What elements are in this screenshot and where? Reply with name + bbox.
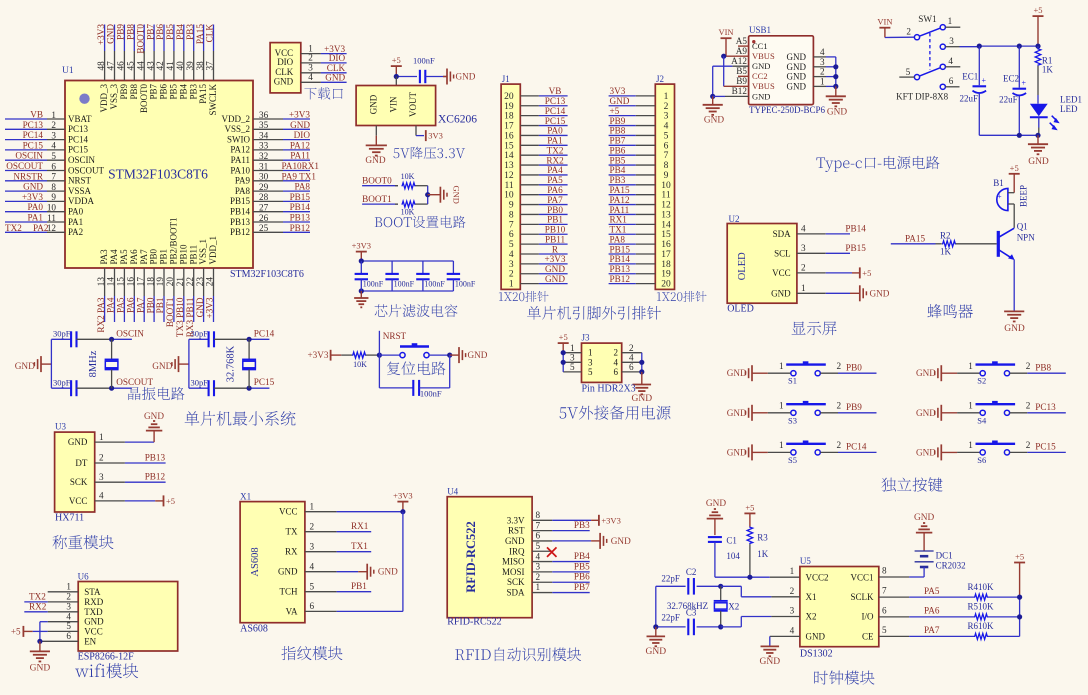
svg-text:6: 6 (949, 76, 954, 86)
svg-text:1: 1 (968, 401, 973, 411)
svg-text:AS608: AS608 (250, 547, 261, 576)
svg-text:S4: S4 (977, 415, 987, 425)
svg-text:PA12: PA12 (290, 140, 310, 150)
switch SW1 pin6 contact + stub (940, 84, 945, 89)
svg-text:DC1: DC1 (936, 550, 953, 560)
svg-text:GND: GND (23, 182, 43, 192)
svg-text:PB5: PB5 (574, 561, 590, 571)
U1.46 (116, 24, 129, 100)
svg-text:2: 2 (536, 572, 541, 582)
svg-text:19: 19 (661, 270, 671, 280)
svg-text:A12: A12 (731, 56, 747, 66)
svg-text:PA15: PA15 (905, 233, 925, 243)
net label PB13 wire (125, 462, 166, 464)
wire C2-C3 left rail (655, 586, 657, 627)
U2.3 (774, 243, 826, 258)
svg-text:22uF: 22uF (999, 95, 1018, 105)
USB1 GND A12 stub + wire (732, 65, 748, 67)
svg-text:GND: GND (827, 108, 847, 118)
svg-text:15: 15 (504, 141, 514, 151)
J1.16 (504, 126, 568, 142)
svg-text:8: 8 (664, 161, 669, 171)
svg-text:12: 12 (661, 201, 671, 211)
svg-text:PB4: PB4 (175, 24, 185, 40)
svg-text:PC13: PC13 (545, 96, 566, 106)
J1.5 (509, 234, 568, 250)
filter caps top rail (361, 260, 453, 262)
switch dashed link (929, 33, 931, 70)
svg-text:2: 2 (99, 453, 104, 463)
svg-text:PB6: PB6 (610, 145, 626, 155)
svg-text:PA15: PA15 (610, 185, 630, 195)
svg-text:AS608: AS608 (240, 624, 268, 635)
caption 显示屏 (792, 321, 837, 335)
svg-text:VCC: VCC (772, 268, 791, 278)
wire pin7 + net label PA5 (879, 596, 909, 598)
power +5 port (R3) (744, 512, 755, 514)
net label RX1 wire (X1) (337, 531, 372, 533)
svg-text:X2: X2 (728, 601, 739, 611)
J1.3 (509, 254, 568, 270)
svg-text:RST: RST (508, 526, 525, 536)
svg-text:BEEP: BEEP (1019, 185, 1029, 207)
svg-text:4: 4 (664, 122, 669, 132)
svg-text:PB1: PB1 (351, 581, 367, 591)
wire OSCOUT row (Y2) (214, 387, 249, 389)
caption 单片机引脚外引排针 (527, 306, 661, 320)
svg-text:GND: GND (1028, 157, 1049, 167)
svg-text:3: 3 (949, 36, 954, 46)
wire GND vertical to B12 + node (712, 66, 714, 96)
svg-text:TCH: TCH (280, 587, 299, 597)
svg-text:SDA: SDA (773, 229, 792, 239)
ground GND (earth) power rail (1037, 135, 1039, 143)
resistor R3 1K (747, 526, 753, 544)
DL.2 (277, 53, 346, 67)
svg-text:B9: B9 (736, 76, 747, 86)
svg-text:X2: X2 (806, 612, 817, 622)
svg-text:PB8: PB8 (129, 84, 139, 100)
svg-text:PC14: PC14 (254, 329, 275, 339)
svg-text:43: 43 (145, 61, 155, 71)
svg-text:2: 2 (1026, 361, 1031, 371)
svg-text:PB14: PB14 (610, 254, 631, 264)
svg-text:U4: U4 (447, 487, 458, 497)
svg-text:1: 1 (536, 582, 541, 592)
svg-text:OSCIN: OSCIN (116, 329, 144, 339)
svg-text:2: 2 (837, 361, 842, 371)
svg-text:PA15: PA15 (198, 84, 208, 104)
svg-text:GND: GND (152, 362, 172, 372)
display U2 OLED body (727, 224, 797, 304)
svg-text:GND: GND (468, 350, 488, 360)
svg-text:32: 32 (259, 151, 269, 161)
caption 蜂鸣器 (927, 304, 973, 318)
svg-text:+5: +5 (610, 106, 620, 116)
svg-text:PA1: PA1 (68, 217, 83, 227)
svg-text:DIO: DIO (329, 53, 346, 63)
svg-text:17: 17 (504, 122, 514, 132)
U1.26 (230, 213, 310, 227)
svg-text:PC14: PC14 (846, 442, 867, 452)
U2.2 (772, 263, 826, 278)
svg-text:VDD_2: VDD_2 (222, 114, 251, 124)
svg-text:10K: 10K (401, 208, 415, 217)
svg-text:BOOT0: BOOT0 (362, 175, 392, 185)
svg-text:+: + (1021, 79, 1026, 88)
svg-text:19: 19 (155, 277, 165, 287)
svg-text:PB13: PB13 (145, 452, 166, 462)
svg-text:3: 3 (820, 57, 825, 67)
U1.11 (5, 213, 83, 227)
connector P? download port body (270, 43, 301, 93)
svg-text:PA12: PA12 (230, 145, 250, 155)
svg-text:LED1: LED1 (1060, 95, 1082, 105)
caption 5V外接备用电源 (560, 406, 671, 420)
connector J3 HDR2X3 body (582, 343, 622, 382)
svg-text:22: 22 (185, 277, 195, 287)
wire S1 right + net label PB0 (820, 372, 838, 374)
wire cap to right leg (419, 387, 450, 389)
svg-text:PA7: PA7 (135, 297, 145, 313)
U6.3 (66, 602, 103, 617)
svg-text:GND: GND (632, 394, 653, 404)
U6 VCC pin wire (33, 630, 48, 632)
svg-text:13: 13 (504, 161, 514, 171)
wire S1 left (768, 372, 791, 374)
svg-text:LED: LED (1060, 104, 1078, 114)
svg-text:PB3: PB3 (610, 175, 626, 185)
net label PB5 wire (U4) (552, 571, 589, 573)
svg-text:VSS_3: VSS_3 (109, 84, 119, 110)
svg-text:30pF: 30pF (191, 377, 209, 387)
svg-text:6: 6 (51, 161, 56, 171)
J2.15 (609, 225, 671, 241)
resistor 10K (BOOT1) (402, 201, 416, 207)
svg-text:VBAT: VBAT (68, 114, 92, 124)
U1.15 (116, 249, 129, 322)
U1.16 (126, 249, 139, 322)
svg-text:5: 5 (51, 151, 56, 161)
svg-text:11: 11 (47, 213, 56, 223)
svg-text:20: 20 (504, 92, 514, 102)
svg-text:PA15: PA15 (195, 24, 205, 44)
capacitor 100nF (reset) (412, 380, 414, 396)
svg-text:PB13: PB13 (290, 213, 311, 223)
svg-text:SDA: SDA (506, 588, 525, 598)
svg-text:GND: GND (452, 185, 462, 203)
U1.2 (5, 120, 89, 134)
power VIN port (USB) (721, 37, 732, 39)
svg-text:HX711: HX711 (55, 513, 84, 524)
svg-text:GND: GND (727, 368, 747, 378)
svg-text:46: 46 (116, 61, 126, 71)
caption RFID自动识别模块 (455, 648, 581, 662)
svg-text:26: 26 (259, 213, 269, 223)
U4.3 (502, 562, 552, 577)
wire S2 right + net label PB8 (1010, 372, 1028, 374)
J1.18 (504, 106, 568, 122)
svg-text:MOSI: MOSI (502, 567, 525, 577)
svg-text:PB6: PB6 (574, 572, 590, 582)
crystal X2 body (720, 586, 722, 601)
svg-text:PA6: PA6 (129, 249, 139, 265)
svg-text:29: 29 (259, 182, 269, 192)
power +3V3 port (X1) (397, 501, 408, 503)
svg-text:U6: U6 (78, 572, 89, 582)
svg-text:GND: GND (144, 411, 164, 421)
svg-text:TX3 PB10: TX3 PB10 (175, 297, 185, 337)
svg-text:6: 6 (509, 230, 514, 240)
wire to 10K (341, 354, 352, 356)
svg-text:10: 10 (661, 181, 671, 191)
svg-text:PC13: PC13 (68, 124, 89, 134)
U1.24 (205, 236, 218, 322)
svg-text:PB1: PB1 (159, 249, 169, 265)
U1.28 (230, 192, 310, 206)
capacitor 30pF top (Y1) (51, 338, 71, 340)
J3.5 (563, 362, 593, 377)
J2.10 (609, 175, 671, 191)
svg-text:5: 5 (509, 240, 514, 250)
svg-text:15: 15 (661, 230, 671, 240)
svg-text:1: 1 (779, 361, 784, 371)
svg-text:PB15: PB15 (845, 243, 866, 253)
svg-text:38: 38 (195, 61, 205, 71)
svg-text:1: 1 (51, 110, 56, 120)
wire S3 left (768, 412, 791, 414)
svg-text:PB0: PB0 (145, 297, 155, 313)
svg-text:1: 1 (801, 283, 806, 293)
J2.9 (609, 165, 669, 181)
svg-text:GND: GND (787, 72, 807, 82)
svg-text:R610K: R610K (968, 621, 995, 631)
svg-text:1: 1 (588, 348, 593, 358)
svg-text:TX2: TX2 (29, 591, 46, 601)
svg-text:VA: VA (286, 606, 298, 616)
svg-text:STM32F103C8T6: STM32F103C8T6 (108, 167, 208, 182)
U1.13 (96, 249, 109, 333)
J3.4 (614, 353, 642, 368)
svg-text:PB4: PB4 (610, 165, 626, 175)
svg-text:R3: R3 (757, 533, 768, 543)
svg-text:GND: GND (916, 368, 936, 378)
X1.1 (279, 501, 337, 516)
svg-text:DS1302: DS1302 (800, 649, 833, 660)
svg-text:4: 4 (948, 56, 953, 66)
net label RX2 wire (U6) (48, 611, 78, 613)
svg-text:1K: 1K (757, 549, 769, 559)
svg-text:PB5: PB5 (169, 84, 179, 100)
caption 1X20排针 (J1) (499, 291, 549, 302)
svg-text:PA7: PA7 (547, 195, 563, 205)
USB1 VBUS A9 stub + node (724, 55, 749, 57)
svg-text:Q1: Q1 (1017, 222, 1028, 232)
ground GND (earth) J3 (641, 372, 643, 384)
svg-text:U5: U5 (800, 556, 811, 566)
svg-text:9: 9 (509, 201, 514, 211)
caption 独立按键 (882, 477, 943, 491)
svg-text:5: 5 (664, 131, 669, 141)
svg-text:PB6: PB6 (159, 84, 169, 100)
svg-text:GND: GND (456, 72, 476, 82)
wire +5 node to cap (396, 76, 417, 78)
svg-text:S6: S6 (977, 455, 986, 465)
J3.6 (614, 362, 642, 377)
svg-text:+3V3: +3V3 (96, 24, 106, 45)
svg-text:1K: 1K (940, 246, 952, 256)
svg-text:PB12: PB12 (145, 472, 166, 482)
capacitor EC1 22uF (978, 46, 980, 85)
svg-text:PB5: PB5 (610, 155, 626, 165)
svg-text:6: 6 (614, 367, 619, 377)
wire OSCIN row (Y2) (214, 338, 249, 340)
svg-text:PB4: PB4 (574, 551, 590, 561)
push button S2 (980, 371, 985, 376)
U1.10 (5, 202, 84, 216)
svg-text:BOOT1: BOOT1 (165, 297, 175, 327)
U1.30 (235, 171, 317, 185)
USB1.B5 (736, 66, 767, 81)
svg-text:VBUS: VBUS (752, 51, 775, 61)
svg-text:2: 2 (790, 586, 795, 596)
wire X2 row (721, 626, 742, 628)
svg-text:PB14: PB14 (230, 207, 251, 217)
svg-text:34: 34 (259, 130, 269, 140)
wire GND pin down (375, 126, 377, 136)
svg-text:11: 11 (661, 191, 670, 201)
svg-text:GND: GND (505, 536, 525, 546)
svg-text:EN: EN (84, 636, 96, 646)
svg-text:VSS_2: VSS_2 (224, 124, 250, 134)
svg-text:SCL: SCL (774, 248, 791, 258)
J1.2 (509, 264, 568, 280)
J1.10 (504, 185, 568, 201)
U1.21 (175, 244, 188, 337)
J3.2 (614, 343, 642, 358)
transistor Q1 NPN (997, 231, 1000, 257)
USB1.A12 (731, 56, 770, 71)
svg-text:22pF: 22pF (661, 612, 680, 622)
svg-text:4: 4 (801, 224, 806, 234)
svg-text:PB10: PB10 (545, 225, 566, 235)
ground GND (bar style) BOOT (428, 194, 441, 196)
svg-text:PA0: PA0 (547, 126, 563, 136)
svg-text:R410K: R410K (968, 582, 995, 592)
svg-text:PA8: PA8 (610, 234, 626, 244)
caption 芯片滤波电容 (375, 304, 458, 317)
svg-text:1: 1 (779, 440, 784, 450)
svg-text:C1: C1 (726, 535, 737, 545)
X1 VCC wire to +3V3 node (337, 511, 403, 513)
IC U1 STM32F103C8T6 body (65, 81, 253, 269)
capacitor 100nF (input) (419, 70, 421, 83)
USB1 CC1 stub (738, 45, 749, 47)
svg-text:3: 3 (310, 541, 315, 551)
USB1 GND B12 stub (713, 95, 725, 97)
capacitor 30pF top (Y2) (189, 338, 209, 340)
caption 称重模块 (52, 535, 113, 549)
svg-text:CLK: CLK (275, 67, 294, 77)
svg-text:TX2: TX2 (547, 145, 564, 155)
ground GND (earth) USB right (835, 86, 837, 95)
svg-text:GND: GND (68, 437, 88, 447)
net label PB3 wire (U4) (552, 530, 589, 532)
svg-text:2: 2 (820, 67, 825, 77)
wire R2 to base (956, 243, 997, 245)
J3.3 (563, 353, 593, 368)
switch SW1 pin5 contact + stub (914, 75, 919, 80)
svg-text:PB0: PB0 (149, 248, 159, 264)
USB1.3 (787, 57, 836, 72)
svg-text:RX: RX (285, 547, 298, 557)
J2.5 (609, 126, 669, 142)
svg-text:PA4: PA4 (109, 249, 119, 265)
svg-text:GND: GND (916, 447, 936, 457)
svg-text:4: 4 (51, 141, 56, 151)
U1.44 (135, 24, 148, 113)
svg-text:22uF: 22uF (960, 94, 979, 104)
battery DC1 CR2032 (915, 550, 934, 552)
svg-text:PA5: PA5 (547, 175, 563, 185)
push button S? (reset) (400, 353, 405, 358)
svg-text:PB10: PB10 (178, 244, 188, 265)
U1.20 (165, 217, 178, 327)
svg-text:RX1: RX1 (351, 521, 369, 531)
power +5 port (U3) (125, 500, 155, 502)
wire res to node NRST (366, 354, 380, 356)
svg-text:PB12: PB12 (290, 223, 311, 233)
svg-text:DIO: DIO (294, 130, 311, 140)
svg-text:VCC: VCC (279, 507, 298, 517)
svg-text:PB3: PB3 (185, 24, 195, 40)
U1.8 (5, 182, 92, 196)
caption BOOT设置电路 (375, 216, 466, 228)
C.filter1 (385, 261, 414, 291)
USB1.B9 (736, 76, 775, 91)
svg-text:4: 4 (99, 491, 104, 501)
svg-text:GND: GND (378, 567, 398, 577)
svg-text:GND: GND (610, 96, 630, 106)
USB1.A9 (736, 46, 775, 61)
svg-text:STA: STA (84, 587, 101, 597)
svg-text:PA6: PA6 (126, 297, 136, 313)
switch SW1 pin3 contact + wire to rail (940, 44, 945, 49)
svg-text:100nF: 100nF (413, 56, 435, 66)
caption 单片机最小系统 (185, 411, 296, 426)
U4.5 (509, 541, 552, 556)
X1 VA wire (337, 610, 403, 612)
svg-text:PB15: PB15 (290, 192, 311, 202)
svg-text:C3: C3 (686, 608, 697, 618)
wire S3 right + net label PB9 (820, 412, 838, 414)
U4.6 (505, 531, 552, 546)
svg-text:PA3: PA3 (99, 249, 109, 265)
svg-text:GND: GND (727, 408, 747, 418)
svg-text:PB11: PB11 (545, 234, 565, 244)
J2.4 (609, 116, 669, 132)
svg-text:R510K: R510K (968, 602, 995, 612)
svg-text:GND: GND (914, 513, 934, 523)
power +3V3 port (U4) (552, 519, 591, 521)
svg-text:PB8: PB8 (126, 24, 136, 40)
switch blade 2-1 (919, 28, 940, 36)
svg-text:22pF: 22pF (661, 574, 680, 584)
caption Type-c口-电源电路 (816, 156, 939, 172)
svg-text:PA10: PA10 (230, 165, 250, 175)
svg-text:7: 7 (882, 586, 887, 596)
svg-text:PC13: PC13 (23, 120, 44, 130)
